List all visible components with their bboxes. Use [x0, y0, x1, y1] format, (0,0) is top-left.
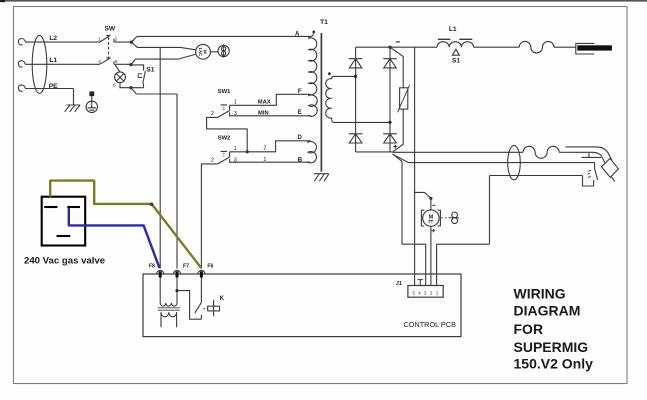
svg-text:1: 1 — [234, 146, 237, 152]
label minus — [396, 41, 400, 43]
svg-text:L2: L2 — [49, 35, 57, 42]
wire L2 input — [25, 41, 100, 43]
svg-text:240 Vac gas valve: 240 Vac gas valve — [24, 255, 105, 266]
terminal F6 pin — [200, 271, 203, 277]
wire blue gas valve to F8 — [69, 208, 160, 268]
svg-text:1: 1 — [234, 99, 237, 105]
svg-text:FOR: FOR — [514, 321, 544, 337]
wire motor-fan link — [210, 51, 218, 53]
svg-text:K: K — [220, 296, 225, 302]
relay K coil wire — [213, 300, 215, 317]
wire S1 bottom to node — [131, 87, 144, 89]
svg-text:SW1: SW1 — [218, 89, 231, 95]
terminal F8 pin — [159, 271, 162, 277]
varistor R1 — [400, 88, 408, 109]
wire squiggle to neck — [559, 151, 565, 153]
svg-text:S1: S1 — [452, 58, 460, 65]
thermal switch S1 blade — [143, 71, 146, 88]
wire plus to J1 pin — [425, 244, 427, 285]
wire top rail minus — [356, 46, 437, 48]
svg-text:DIAGRAM: DIAGRAM — [514, 303, 581, 319]
svg-text:MAX: MAX — [258, 100, 271, 106]
node minus junction — [388, 46, 391, 49]
switch SW pole 1-2 — [100, 35, 131, 42]
wire minus to J1 pin — [414, 47, 416, 285]
relay K link dashed — [203, 308, 207, 310]
wire torch positive — [393, 151, 523, 153]
svg-text:2: 2 — [115, 37, 118, 42]
varistor branch wire — [390, 47, 403, 152]
wire F6 into pcb — [200, 278, 202, 303]
relay K coil box — [208, 306, 220, 311]
thermal switch S1 actuator bump — [138, 74, 142, 78]
wire top node to S1 — [131, 65, 144, 71]
svg-text:J1: J1 — [396, 281, 402, 287]
pcb transformer core — [158, 308, 180, 310]
wire SW2 pole to F6 — [201, 164, 217, 269]
cable squiggle torch — [523, 146, 559, 158]
valve terminal bar left — [44, 206, 57, 208]
svg-text:4: 4 — [98, 59, 101, 64]
diode D1 — [349, 59, 363, 68]
transformer core — [320, 33, 322, 172]
ground PE hatched — [65, 105, 81, 112]
wire olive gas valve to F6 — [50, 181, 201, 268]
protective earth circle symbol — [86, 91, 97, 112]
wire PE input — [25, 88, 74, 90]
winding secondary — [326, 76, 390, 122]
node lamp bottom junction — [129, 86, 132, 89]
inductor L1 winding — [437, 42, 474, 48]
diode D3 — [349, 134, 363, 143]
terminal F8 arc — [157, 270, 164, 274]
svg-text:E: E — [298, 110, 302, 116]
wire PE drop — [73, 89, 75, 106]
svg-text:WIRING: WIRING — [514, 285, 566, 301]
wire F7 drop — [176, 94, 178, 269]
hook L1 — [18, 61, 25, 67]
wire SW1 contact3 MIN — [230, 112, 311, 115]
cable squiggle top — [519, 41, 554, 53]
electrode holder bar — [577, 45, 612, 50]
wire clamp feed diag — [393, 154, 409, 162]
valve terminal bar bottom — [57, 235, 71, 237]
clamp bar — [582, 153, 602, 158]
hook L2 — [18, 39, 25, 45]
wire sense drop — [489, 176, 491, 245]
svg-text:F7: F7 — [183, 264, 189, 270]
wire F7 into pcb — [176, 278, 178, 303]
inductor L1 core bars — [438, 38, 472, 40]
motor plus tick — [432, 229, 436, 232]
switch SW link dashed — [108, 37, 110, 58]
wire bridge left branch — [355, 47, 357, 152]
svg-text:S1: S1 — [146, 67, 154, 74]
lamp pilot light — [115, 72, 126, 83]
svg-text:T1: T1 — [320, 19, 328, 26]
wire bridge right branch — [389, 47, 391, 152]
svg-text:F6: F6 — [207, 264, 213, 270]
svg-text:M1AC: M1AC — [198, 47, 207, 57]
node secondary bottom junction — [388, 121, 391, 124]
wire bottom rail plus — [356, 151, 393, 153]
electrode holder bracket — [576, 43, 595, 54]
terminal F7 arc — [173, 270, 180, 274]
wire motor feed branch — [415, 192, 431, 198]
node olive bend — [150, 203, 153, 206]
clamp jaw top — [595, 163, 598, 180]
wire motor upper — [132, 42, 197, 50]
svg-text:A: A — [295, 31, 300, 37]
node F7 tap junction — [175, 289, 178, 292]
wire y94 run — [136, 93, 177, 95]
svg-text:2: 2 — [263, 145, 266, 151]
node motor top junction — [429, 197, 432, 200]
svg-text:6: 6 — [113, 82, 116, 87]
svg-text:B: B — [298, 157, 303, 163]
varistor diagonal — [398, 85, 410, 112]
wire plus bottom run — [402, 243, 426, 245]
winding primary F-E — [309, 94, 318, 116]
wire motor bottom to J1 — [430, 226, 432, 285]
svg-text:F: F — [298, 89, 302, 95]
wire sense run — [490, 175, 583, 177]
gas valve box — [42, 197, 85, 246]
wire choke to squiggle — [474, 46, 520, 48]
svg-text:2: 2 — [211, 157, 214, 163]
svg-text:MIN: MIN — [258, 110, 269, 116]
motor bracket right — [438, 210, 441, 226]
hook PE — [18, 85, 25, 91]
diode D2 — [383, 59, 397, 68]
node dot tap A — [312, 31, 315, 34]
wire node diag down to F7 run — [131, 88, 136, 94]
wire plus node down diag — [393, 154, 402, 244]
fan wire dashed — [441, 217, 450, 219]
svg-text:SW: SW — [105, 26, 116, 33]
terminal F6 arc — [198, 270, 205, 274]
svg-text:D: D — [298, 135, 303, 141]
thermal sensor triangle — [452, 49, 459, 55]
svg-text:CONTROL PCB: CONTROL PCB — [404, 320, 457, 329]
node L1 switched junction — [129, 63, 132, 66]
control PCB board — [143, 274, 461, 337]
wire motor top — [430, 198, 432, 210]
motor minus tick — [432, 204, 435, 206]
switch SW2 blade — [218, 151, 230, 164]
fan symbol — [218, 44, 229, 57]
top scan strip — [0, 0, 647, 2]
label plus — [393, 145, 397, 149]
wire SW2 contact3 to tap B — [230, 159, 310, 162]
torch neck outer — [566, 147, 612, 160]
svg-text:3: 3 — [234, 157, 237, 163]
svg-text:F8: F8 — [149, 264, 155, 270]
fan feed symbol — [450, 212, 460, 224]
wire squiggle to holder — [554, 46, 576, 48]
clamp jaw bottom — [583, 176, 594, 187]
wire lamp top feed — [115, 65, 120, 72]
svg-text:1: 1 — [263, 157, 266, 163]
relay K contact blade — [195, 302, 202, 313]
svg-text:SW2: SW2 — [218, 136, 231, 142]
svg-text:1: 1 — [98, 37, 101, 42]
cable oval torch bundle — [508, 145, 521, 179]
wire tap A run — [137, 35, 311, 37]
wire node diag up to motor line — [131, 59, 136, 65]
motor M 1AC circle — [196, 44, 211, 59]
valve terminal bar right — [67, 206, 80, 208]
connector J1 box — [408, 286, 443, 298]
motor bracket left — [421, 210, 424, 226]
node dot secondary — [328, 72, 331, 75]
winding primary A-F — [309, 33, 317, 95]
pcb transformer secondary — [161, 312, 177, 317]
wire relay loop — [177, 291, 201, 320]
torch wire stub — [612, 177, 615, 182]
wire lamp bottom — [120, 83, 131, 88]
wire F8 drop from tee — [159, 47, 161, 268]
torch nozzle — [602, 158, 619, 177]
node SW2 contact1 junction — [246, 150, 249, 153]
switch SW pole 4-5 — [100, 58, 131, 64]
torch neck inner — [566, 152, 605, 162]
pcb transformer secondary legs — [161, 312, 177, 327]
wire sense bottom run — [437, 243, 490, 245]
wire SW1 pole down — [207, 117, 248, 151]
wire SW1 contact1 MAX — [230, 94, 311, 105]
svg-text:L1: L1 — [49, 57, 57, 64]
cable oval sheath — [32, 35, 47, 93]
wire SW2 contact1 to tap D — [230, 141, 310, 152]
wire sense to J1 pin — [436, 244, 438, 285]
diode D4 — [383, 134, 397, 143]
svg-text:3: 3 — [234, 111, 237, 117]
switch SW1 blade — [218, 105, 230, 118]
svg-text:L1: L1 — [449, 26, 457, 33]
motor M dc circle — [423, 210, 439, 226]
wire clamp run — [409, 162, 595, 164]
node L2 switched junction — [130, 41, 133, 44]
wire L2 node to tap A diag — [132, 36, 138, 42]
svg-text:150.V2 Only: 150.V2 Only — [514, 355, 594, 371]
node secondary top junction — [354, 75, 357, 78]
pcb transformer primary — [160, 303, 177, 306]
clamp screw glyph — [588, 170, 592, 177]
svg-text:PE: PE — [49, 83, 58, 90]
wire F8 into pcb — [159, 278, 161, 303]
wire L1 input — [25, 63, 100, 65]
svg-text:M: M — [429, 215, 433, 221]
svg-text:54321: 54321 — [413, 290, 442, 295]
ground core hatched — [314, 174, 329, 182]
pin stub with tick — [418, 280, 423, 286]
wire motor lower — [136, 54, 197, 59]
terminal F7 pin — [176, 271, 179, 277]
svg-text:2: 2 — [211, 111, 214, 117]
svg-text:SUPERMIG: SUPERMIG — [514, 339, 589, 355]
svg-text:5: 5 — [115, 59, 118, 64]
winding primary D-B — [308, 141, 317, 163]
